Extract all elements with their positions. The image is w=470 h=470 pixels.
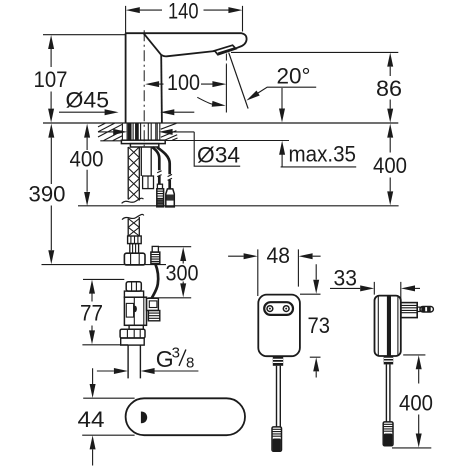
svg-text:max.35: max.35 [289,141,357,166]
dimension 400 left [86,138,88,192]
hose break squiggle [122,198,144,203]
socket pin left [267,306,273,312]
svg-text:44: 44 [78,407,105,432]
water stream 20deg line [229,53,248,109]
valve neck [129,325,143,329]
aerator outlet [215,45,236,55]
svg-text:20°: 20° [277,64,311,89]
cable socket connector right [166,189,175,207]
label max.35 [281,166,357,168]
svg-text:390: 390 [29,182,66,207]
svg-text:Ø34: Ø34 [197,143,240,168]
euro plug base side view [401,303,417,318]
connection reference line 390 end [42,264,167,266]
stream direction arrow [281,88,283,109]
dimension 86 [389,67,391,109]
strain relief side view [384,356,394,365]
valve cable socket [147,298,159,310]
faucet shank cross-section verticals [127,123,157,140]
socket pin right [283,306,289,312]
dimension 73 [300,294,321,357]
valve step plate [124,291,143,297]
cable guide tube [141,147,151,176]
water stream centerline [225,54,227,66]
svg-text:100: 100 [167,70,200,95]
valve lower ring [121,338,145,345]
svg-text:86: 86 [376,76,402,101]
svg-text:8: 8 [186,354,194,371]
braided supply hose upper piece [128,147,139,201]
svg-text:400: 400 [70,146,104,171]
countertop hatching left [98,123,122,141]
valve compression nut [120,329,145,338]
dimension 390 [50,138,52,251]
svg-text:Ø45: Ø45 [66,88,110,113]
extension cable plug connector [152,246,158,252]
dimension 400 right [389,138,391,192]
plug pin side view [417,307,420,311]
faucet body outline [126,33,247,123]
power supply side view body [375,296,401,356]
countertop top surface line [43,122,398,124]
sensor cable right [157,147,170,189]
svg-text:73: 73 [308,313,331,338]
countertop underside lines [100,140,289,142]
power cable side view [386,364,390,422]
mounting flange plates [121,140,165,143]
deck hole edges [122,123,159,141]
dimension 107 [43,35,126,109]
svg-text:400: 400 [399,391,433,416]
dimension 44 [82,398,134,435]
svg-text:140: 140 [168,0,199,24]
svg-text:3: 3 [172,345,180,362]
valve connection tailpipe [128,345,140,378]
cable jack connector side view [383,422,393,446]
sensor window mark [141,412,147,424]
dimension arrows diameter 34 [98,131,113,133]
solenoid valve inlet hex [126,282,141,291]
svg-text:107: 107 [34,67,68,92]
svg-text:77: 77 [80,301,103,326]
power supply front view body [258,295,300,357]
dimension 77 [82,279,128,344]
label diameter 34 leader [194,132,240,166]
faucet centerline [143,30,145,146]
dimension 300 [148,247,191,298]
svg-text:300: 300 [166,260,199,285]
cable guide box [143,176,154,189]
strain relief front view [273,356,283,366]
cable plug connector left [157,184,162,189]
svg-text:400: 400 [373,153,407,178]
hose union nut [124,253,145,265]
svg-text:33: 33 [334,266,358,291]
svg-text:48: 48 [267,243,291,268]
sensor cable left [152,147,159,184]
hose end ribbed tube [130,244,139,254]
cable jack connector front view [272,427,282,451]
dimension 140 [126,6,243,33]
hose end ferrule [128,236,142,244]
hose length reference line 400 [78,205,399,207]
braided hose lower piece [122,214,144,219]
valve body [124,297,146,325]
euro socket recess [264,302,293,315]
dimension 48 [228,255,321,257]
valve cable from plug to solenoid [152,264,158,298]
thread label G 3/8 [97,370,198,372]
dimension 100 [159,83,213,85]
countertop hatching right [161,123,178,140]
leader from 100 to stream line [197,97,213,104]
dimension 400 bottom [392,355,431,448]
aerator height reference line [231,51,398,53]
power cable front view [277,366,281,427]
sensor escutcheon oval top view [126,398,245,435]
